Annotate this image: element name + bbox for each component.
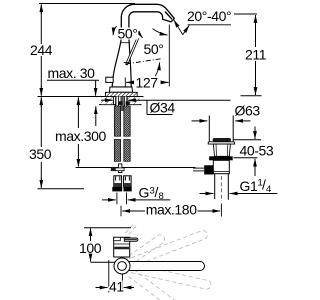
- svg-text:max.180: max.180: [146, 201, 198, 217]
- svg-text:Ø63: Ø63: [235, 103, 261, 119]
- svg-text:350: 350: [29, 146, 52, 162]
- svg-text:20°-40°: 20°-40°: [187, 8, 231, 24]
- svg-text:40-53: 40-53: [240, 142, 274, 158]
- svg-text:Ø34: Ø34: [150, 100, 176, 116]
- svg-text:50°: 50°: [118, 26, 138, 42]
- svg-text:50°: 50°: [144, 41, 164, 57]
- svg-text:244: 244: [30, 42, 53, 58]
- svg-text:max.300: max.300: [55, 128, 107, 144]
- svg-text:max. 30: max. 30: [48, 65, 96, 81]
- svg-text:41: 41: [109, 279, 124, 295]
- svg-text:G: G: [139, 184, 150, 200]
- svg-text:G1: G1: [240, 178, 258, 194]
- svg-text:211: 211: [245, 47, 267, 63]
- svg-text:4: 4: [266, 184, 271, 195]
- svg-text:127: 127: [136, 75, 159, 91]
- svg-text:100: 100: [79, 240, 102, 256]
